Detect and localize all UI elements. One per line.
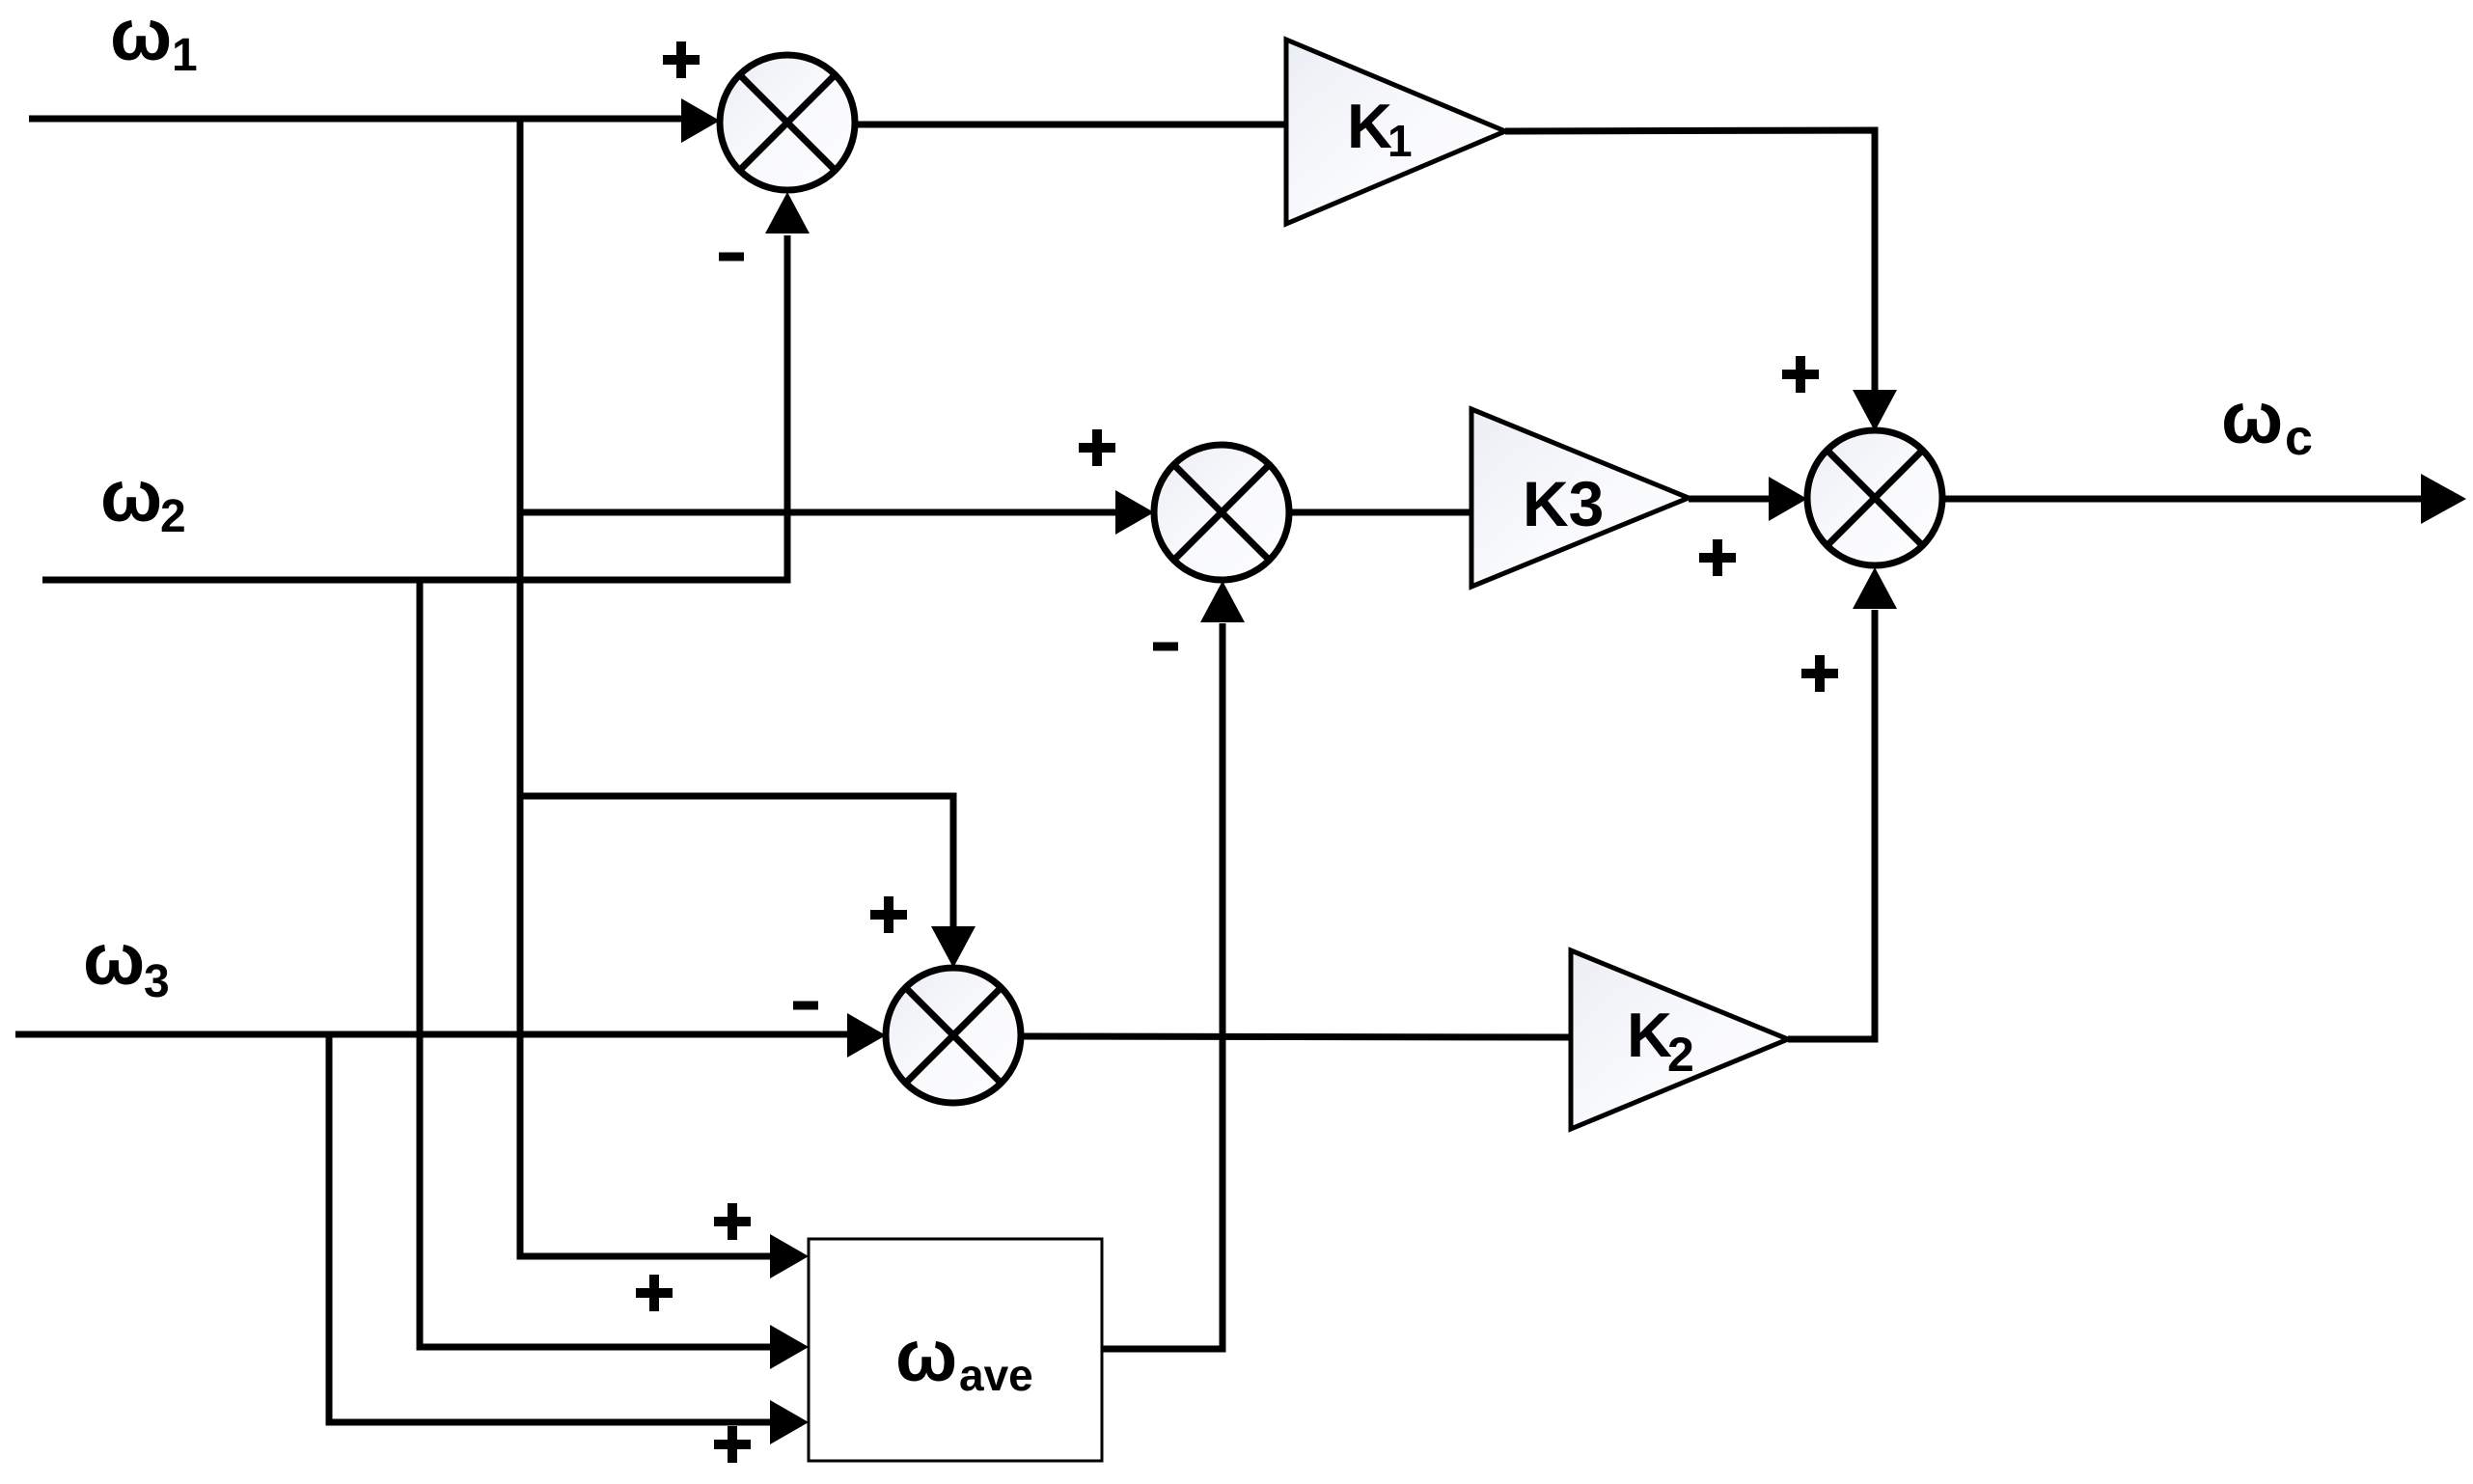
svg-text:3: 3 <box>144 956 170 1007</box>
svg-text:2: 2 <box>1667 1028 1694 1082</box>
svg-text:K3: K3 <box>1523 468 1604 539</box>
svg-text:1: 1 <box>1388 116 1413 166</box>
svg-text:2: 2 <box>160 491 186 542</box>
svg-text:ω: ω <box>110 0 172 76</box>
svg-text:1: 1 <box>172 30 198 81</box>
svg-text:ω: ω <box>100 455 162 537</box>
svg-text:ω: ω <box>83 919 145 1001</box>
svg-text:ω: ω <box>2221 377 2283 459</box>
svg-text:K: K <box>1347 91 1392 161</box>
svg-text:ω: ω <box>895 1315 957 1397</box>
svg-text:ave: ave <box>959 1350 1033 1400</box>
svg-text:K: K <box>1627 1000 1672 1070</box>
svg-text:c: c <box>2285 410 2313 466</box>
